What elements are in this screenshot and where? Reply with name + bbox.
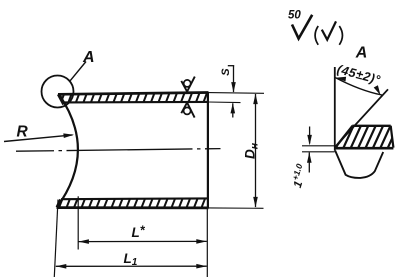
tube bottom inner surface line <box>61 197 209 200</box>
dimension S upper arrow <box>228 66 236 93</box>
svg-text:A: A <box>82 49 95 66</box>
bottom extension line for Dn <box>209 207 264 209</box>
label L* <box>132 224 146 241</box>
svg-text:S: S <box>220 68 232 76</box>
extension line upper for dim 1 <box>302 145 335 147</box>
detail A wall right edge <box>391 126 394 148</box>
label Dn <box>243 142 261 159</box>
dimension L* line <box>78 239 206 244</box>
angle dimension arc (45+-2) <box>335 77 382 95</box>
extension line lower for dim 1 <box>302 151 335 153</box>
secondary roughness check mark <box>322 21 336 39</box>
dimension S extension line (outer) <box>209 92 265 95</box>
parenthesis right <box>339 26 342 45</box>
radius R leader arrow <box>4 133 74 141</box>
label 1 +1.0 <box>288 162 310 189</box>
roughness symbol on inner surface <box>181 103 194 118</box>
svg-text:50: 50 <box>288 10 301 22</box>
detail A label <box>355 45 368 62</box>
tube top wall hatching <box>53 91 215 103</box>
dim 1 lower arrow <box>307 152 312 172</box>
parenthesis left <box>315 26 318 45</box>
label (45+-2) deg <box>335 62 382 87</box>
tube top inner surface line <box>63 101 209 104</box>
label L1 <box>124 251 138 268</box>
detail A chamfer line 45 deg <box>335 89 388 147</box>
tube wall wedge tips at break line <box>57 94 64 207</box>
label R <box>17 124 29 141</box>
detail A wall hatching <box>328 124 402 149</box>
tube bottom wall hatching <box>51 197 213 209</box>
svg-text:R: R <box>17 124 29 141</box>
dimension S extension line (inner) <box>209 101 241 104</box>
curved break line radius R <box>57 94 78 207</box>
detail A wall bottom edge (outer surface) <box>335 147 394 150</box>
roughness symbol on outer surface <box>181 77 195 92</box>
dimension S lower arrow <box>231 103 236 118</box>
dim 1 upper arrow <box>307 127 312 146</box>
L1 left extension line <box>54 200 58 278</box>
detail callout circle A <box>42 76 74 108</box>
centerline <box>16 149 221 152</box>
tube end face <box>207 92 209 208</box>
detail A end face extension line <box>334 67 336 151</box>
label A (main view) <box>82 49 95 66</box>
dimension L1 line <box>56 264 207 269</box>
svg-text:A: A <box>355 45 368 62</box>
label S <box>220 68 232 76</box>
L* left extension line <box>77 196 79 249</box>
general roughness value 50 <box>288 10 301 22</box>
tube bottom outer surface line <box>57 206 209 209</box>
detail A chamfer edge on wall <box>335 126 352 148</box>
detail A outer chamfer outline <box>335 151 383 178</box>
tube top outer surface line <box>58 93 209 95</box>
right extension line below tube <box>206 208 208 277</box>
leader line to label A <box>70 62 86 82</box>
detail A wall top edge <box>352 125 390 127</box>
dimension Dn line <box>253 94 258 208</box>
general roughness check mark <box>292 15 312 39</box>
